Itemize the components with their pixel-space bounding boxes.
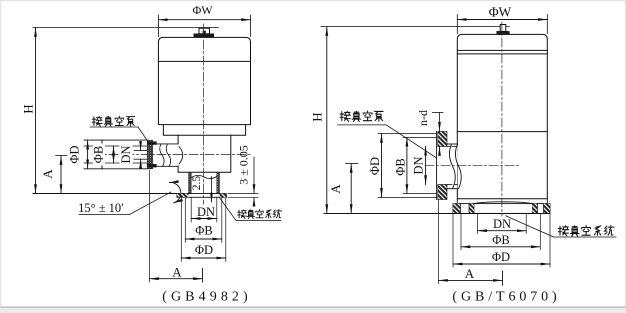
valve neck xyxy=(178,135,231,172)
svg-text:3 ± 0.05: 3 ± 0.05 xyxy=(236,145,250,185)
svg-text:ΦD: ΦD xyxy=(492,250,510,264)
baseline (left valve) xyxy=(33,193,178,195)
baseline (right valve) xyxy=(324,213,550,215)
dimension DN (bottom flange) xyxy=(478,217,527,231)
solenoid cap knob (right valve) xyxy=(497,25,510,35)
svg-text:(GB4982): (GB4982) xyxy=(162,290,252,305)
solenoid cap knob xyxy=(194,28,214,37)
dimension 3 +/- 0.05 (flange thickness) xyxy=(228,145,258,206)
svg-text:A: A xyxy=(40,169,55,179)
body lower step xyxy=(163,125,245,136)
PhiD extension lines (side flange) xyxy=(378,134,436,198)
dimension H (left valve) xyxy=(21,28,219,194)
bottom spigot walls (stippled) xyxy=(189,172,220,193)
dimension PhiB (bottom flange) xyxy=(461,233,540,247)
svg-text:A: A xyxy=(328,184,343,194)
bottom flange plate (left valve) xyxy=(177,194,227,198)
side pipe stub (right valve) xyxy=(447,144,461,189)
svg-text:A: A xyxy=(465,266,475,281)
leader to vacuum pump label (right valve) xyxy=(338,125,437,158)
dimension PhiB (left port) xyxy=(92,144,114,166)
pipe DN bore lines xyxy=(134,150,147,159)
dimension PhiW (right valve) xyxy=(457,5,547,34)
svg-text:ΦW: ΦW xyxy=(489,5,512,20)
dimension 2.5 (spigot wall) xyxy=(191,176,211,202)
svg-text:ΦB: ΦB xyxy=(92,146,106,163)
PhiD extension lines (bottom flange) xyxy=(453,214,550,267)
label "connect vacuum system" (right valve) xyxy=(558,226,614,237)
svg-text:15° ± 10′: 15° ± 10′ xyxy=(78,201,124,215)
KF clamp ring (stippled) xyxy=(147,140,157,169)
dimension PhiB (bottom port) xyxy=(185,224,222,240)
left port pipe outline / PhiD extension lines xyxy=(84,140,147,169)
svg-text:ΦB: ΦB xyxy=(195,224,212,238)
svg-text:ΦD: ΦD xyxy=(195,243,213,257)
DN extension lines (bottom flange) xyxy=(478,214,527,234)
horizontal centreline (left valve) xyxy=(93,154,250,156)
svg-text:ΦD: ΦD xyxy=(68,145,82,163)
vertical centreline (right valve) xyxy=(501,22,503,216)
dimension A (left valve bottom) xyxy=(150,170,203,282)
leader to vacuum system label (right valve) xyxy=(506,216,616,237)
dimension PhiD (bottom flange) xyxy=(453,250,550,264)
label "connect vacuum pump" (left valve) xyxy=(92,116,134,126)
bottom grey band xyxy=(0,306,626,308)
svg-text:(GB/T6070): (GB/T6070) xyxy=(452,290,560,305)
svg-text:ΦB: ΦB xyxy=(394,158,408,175)
dimension PhiD (side flange) xyxy=(368,134,382,198)
dimension PhiD (left port) xyxy=(68,140,88,169)
svg-text:A: A xyxy=(172,265,182,280)
label "connect vacuum system" (left valve) xyxy=(238,210,282,219)
svg-text:H: H xyxy=(21,104,36,113)
PhiB extension lines (bottom port) xyxy=(185,198,222,243)
DN extension lines (bottom port) xyxy=(191,198,217,222)
PhiD extension lines (bottom port) xyxy=(181,198,226,262)
dimension DN (left port) xyxy=(119,143,140,166)
pipe socket with break lines xyxy=(153,144,179,166)
vertical centreline (left valve) xyxy=(203,24,205,204)
dimension A (right valve side) xyxy=(328,164,358,214)
dimension PhiW (left valve) xyxy=(158,3,250,37)
svg-text:ΦW: ΦW xyxy=(192,3,213,17)
svg-text:ΦB: ΦB xyxy=(492,233,509,247)
dimension A (right valve bottom) xyxy=(439,200,503,286)
PhiB extension lines (side flange) xyxy=(403,137,436,193)
PhiB extension lines (bottom flange) xyxy=(461,214,540,250)
dimension H (right valve) xyxy=(309,26,509,213)
svg-text:DN: DN xyxy=(119,145,133,163)
svg-text:H: H xyxy=(309,112,324,121)
solenoid body (right valve) xyxy=(457,34,547,198)
svg-text:2.5: 2.5 xyxy=(191,176,203,191)
horizontal centreline (right pipe) xyxy=(425,164,520,166)
dimension PhiB (side flange) xyxy=(394,137,408,193)
side flange (right valve, hatched) xyxy=(437,132,447,200)
dimension n-d (bolt holes) xyxy=(416,110,443,150)
bottom flange (right valve) xyxy=(453,199,550,214)
dimension DN (side flange) xyxy=(412,146,426,184)
leader to vacuum pump label (left valve) xyxy=(90,127,148,142)
angle dimension 15 deg +/- 10' xyxy=(78,182,181,215)
dimension PhiD (bottom port) xyxy=(181,243,226,258)
svg-text:DN: DN xyxy=(197,205,215,219)
solenoid body (left valve) xyxy=(158,37,250,124)
svg-text:DN: DN xyxy=(493,217,511,231)
svg-text:ΦD: ΦD xyxy=(368,157,382,175)
label "connect vacuum pump" (right valve) xyxy=(340,111,383,122)
svg-text:n-d: n-d xyxy=(416,110,430,126)
pipe bore / PhiB extension lines xyxy=(84,146,147,163)
leader to vacuum system label (left valve) xyxy=(219,197,281,221)
dimension A (left valve side) xyxy=(40,156,67,194)
svg-text:DN: DN xyxy=(412,156,426,174)
dimension DN (bottom port) xyxy=(191,205,217,219)
